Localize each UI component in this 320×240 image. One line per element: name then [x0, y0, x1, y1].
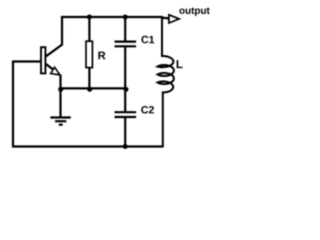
label C2	[141, 106, 154, 114]
wire emitter node rail	[61, 87, 126, 89]
label output	[179, 7, 209, 16]
wire emitter column	[59, 75, 61, 89]
label L	[177, 60, 183, 68]
wire collector riser	[46, 16, 62, 56]
label C1	[141, 36, 154, 44]
wire bottom rail	[12, 145, 162, 147]
label R	[98, 52, 105, 60]
transistor Q1 base bar	[41, 47, 45, 73]
emitter arrow	[51, 67, 60, 75]
wire output tap	[161, 17, 169, 20]
wire left rail	[12, 61, 14, 147]
node emitter junction	[58, 87, 63, 92]
wire top rail	[61, 16, 162, 18]
capacitor C1 leads	[124, 17, 126, 88]
ground	[50, 88, 70, 124]
node C1 top junction	[123, 15, 128, 20]
capacitor C2 leads	[124, 88, 126, 146]
node C1 C2 midpoint junction	[124, 87, 129, 92]
node R bottom junction	[87, 87, 92, 92]
resistor R leads	[88, 17, 90, 88]
wire base	[13, 60, 40, 62]
resistor R	[86, 41, 92, 67]
capacitor C1 plates	[115, 42, 137, 47]
wire emitter diagonal	[46, 64, 60, 75]
output arrow	[169, 15, 179, 23]
capacitor C2 plates	[115, 112, 137, 117]
inductor L coil with leads	[158, 16, 174, 148]
node R top junction	[87, 15, 92, 20]
node C2 bottom junction	[123, 144, 128, 149]
